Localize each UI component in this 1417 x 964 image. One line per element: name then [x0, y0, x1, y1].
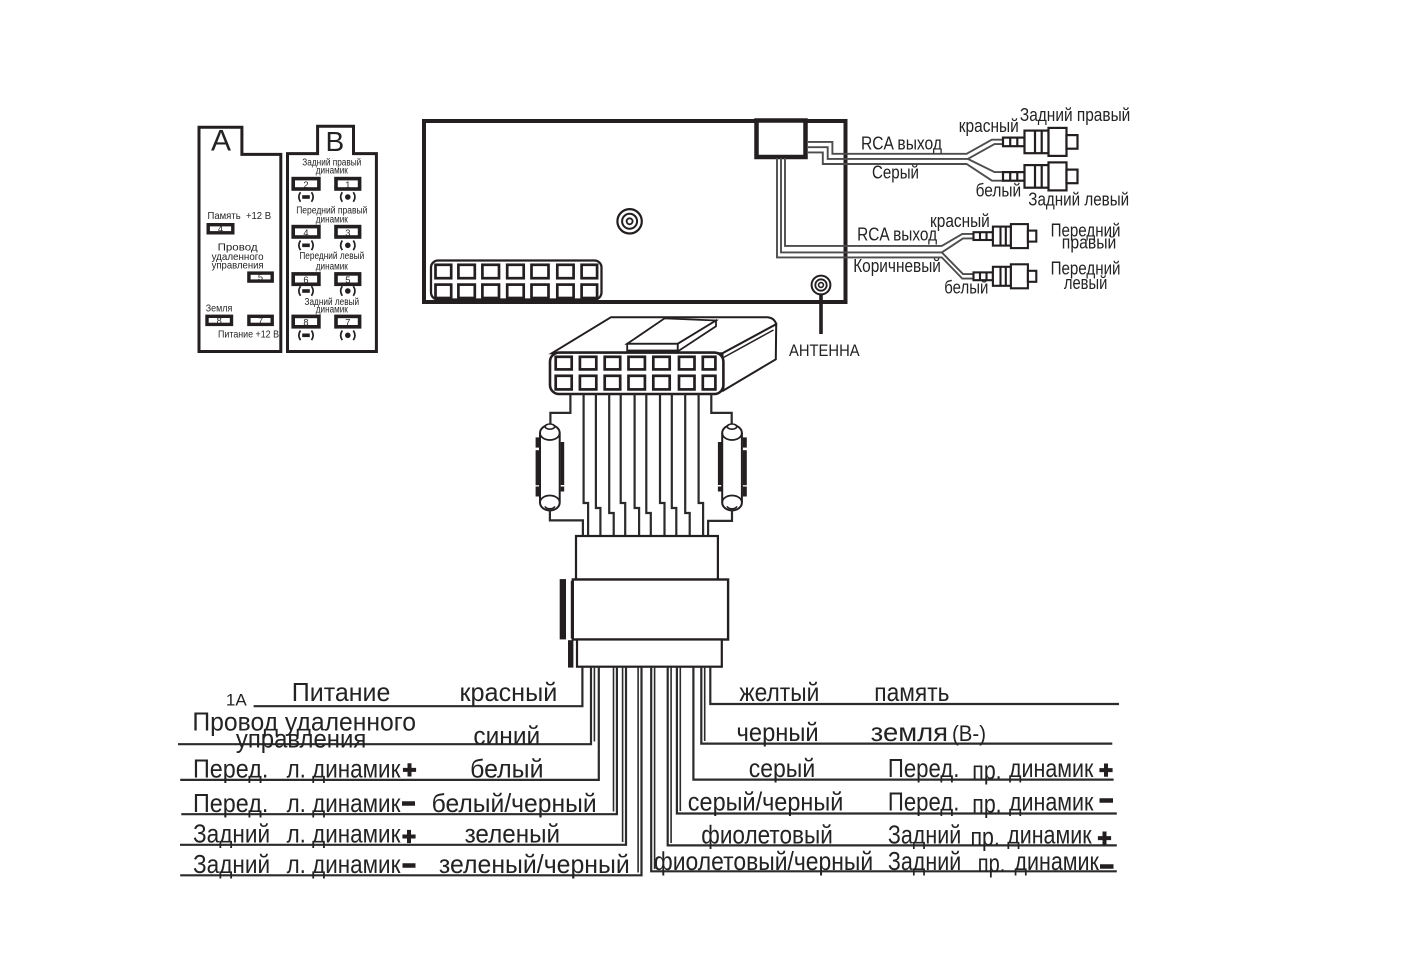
svg-text:красный: красный — [930, 211, 990, 231]
wire RCA front top line — [785, 158, 974, 246]
svg-text:красный: красный — [460, 677, 558, 707]
harness block clip bar upper — [560, 579, 566, 639]
svg-text:управления: управления — [236, 723, 366, 753]
svg-text:Задний: Задний — [193, 849, 270, 879]
svg-text:5: 5 — [345, 275, 350, 285]
svg-text:динамик: динамик — [316, 165, 349, 176]
svg-text:Передний левый: Передний левый — [299, 251, 364, 262]
fuse right bottom nipple — [727, 506, 736, 509]
pin box B8 — [293, 316, 319, 326]
svg-text:земля: земля — [871, 717, 948, 747]
svg-text:Питание: Питание — [292, 677, 391, 707]
fuse left clip right — [561, 442, 565, 492]
svg-text:красный: красный — [959, 116, 1019, 136]
svg-text:АНТЕННА: АНТЕННА — [789, 342, 860, 360]
pin box B1 — [336, 179, 360, 189]
symbol plus B3 — [341, 241, 355, 251]
wire RCA rear top line — [808, 140, 1003, 154]
svg-text:серый: серый — [749, 753, 816, 783]
pin box B2 — [293, 179, 319, 189]
wire gray row 3 right — [693, 667, 1113, 780]
svg-text:белый: белый — [944, 277, 988, 297]
wire plug to left fuse — [550, 394, 570, 424]
wire plug pin 7 — [646, 394, 651, 536]
svg-text:8: 8 — [303, 318, 308, 328]
svg-text:Перед.: Перед. — [193, 753, 268, 783]
svg-text:управления: управления — [212, 260, 264, 272]
svg-text:Перед.: Перед. — [888, 786, 960, 816]
svg-text:Задний левый: Задний левый — [1028, 190, 1129, 210]
svg-text:RCA выход: RCA выход — [857, 225, 937, 245]
ISO plug right face rim line — [724, 330, 774, 358]
svg-text:динамик: динамик — [1015, 846, 1100, 876]
fuse right top nipple — [727, 424, 736, 429]
wire plug pin 8 — [660, 394, 665, 536]
ISO plug top face — [552, 317, 776, 353]
wire violet row 5 right — [668, 667, 1117, 846]
svg-text:белый/черный: белый/черный — [432, 788, 597, 818]
svg-text:5: 5 — [258, 273, 263, 283]
svg-text:3: 3 — [345, 228, 350, 238]
svg-text:Задний: Задний — [193, 819, 270, 849]
svg-text:7: 7 — [258, 316, 263, 326]
harness block clip bar lower — [568, 640, 573, 667]
svg-text:белый: белый — [976, 181, 1022, 201]
wire plug pin 10 — [685, 394, 690, 536]
wire black (земля) row 2 right — [701, 667, 1112, 744]
svg-text:л. динамик: л. динамик — [287, 788, 401, 818]
fuse left top nipple — [545, 424, 554, 429]
wire plug pin 2 — [584, 394, 589, 536]
pin box A5 — [249, 273, 272, 281]
svg-text:л. динамик: л. динамик — [287, 753, 401, 783]
symbol minus B2 — [299, 192, 313, 202]
wire blue (Провод удаленного управления) row 2 left — [178, 667, 591, 745]
svg-text:левый: левый — [1064, 273, 1107, 293]
ISO plug key tab top face — [627, 318, 716, 343]
symbol plus B1 — [341, 192, 355, 202]
RCA plug front right (red) — [974, 224, 1037, 248]
fuse left clip left — [536, 437, 540, 496]
antenna jack — [812, 276, 831, 295]
antenna lead wire — [819, 295, 823, 334]
ISO plug right side face — [723, 324, 777, 390]
symbol minus B6 — [299, 286, 313, 296]
svg-text:динамик: динамик — [1009, 753, 1094, 783]
wire green row 5 left — [180, 667, 626, 845]
svg-text:Перед.: Перед. — [193, 788, 268, 818]
wire plug pin 6 — [635, 394, 640, 536]
RCA plug front left (white) — [974, 264, 1037, 288]
wire row 2 left companion line — [593, 667, 595, 742]
wire row 5 right companion line — [670, 667, 672, 843]
wire right fuse to harness block — [708, 509, 732, 536]
fuse right clip right — [743, 437, 747, 496]
wire plug to right fuse — [711, 394, 731, 424]
svg-text:Коричневый: Коричневый — [853, 256, 941, 276]
harness block middle shell — [573, 580, 728, 640]
connector A outline — [199, 127, 281, 351]
svg-text:B: B — [326, 126, 345, 157]
RCA output module box — [757, 121, 806, 158]
wire RCA rear middle line — [808, 144, 1003, 172]
svg-text:фиолетовый/черный: фиолетовый/черный — [654, 846, 873, 876]
wire row 2 right companion line — [704, 667, 706, 741]
svg-text:2: 2 — [303, 180, 308, 190]
svg-text:правый: правый — [1062, 233, 1117, 253]
fuse left bottom nipple — [545, 506, 554, 509]
wire row 5 left companion line — [622, 667, 624, 842]
pin box A8 — [207, 316, 232, 324]
svg-text:черный: черный — [737, 717, 819, 747]
symbol minus B4 — [299, 241, 313, 251]
pin box A7 — [249, 316, 272, 324]
symbol plus B7 — [341, 331, 355, 341]
harness block upper shell — [576, 536, 718, 580]
svg-text:Питание +12 В: Питание +12 В — [218, 328, 279, 340]
svg-text:память: память — [874, 677, 949, 707]
svg-text:6: 6 — [303, 275, 308, 285]
symbol minus B8 — [299, 331, 313, 341]
pin box B7 — [336, 316, 360, 326]
wire RCA front bottom line — [777, 158, 974, 279]
svg-text:зеленый/черный: зеленый/черный — [439, 849, 630, 879]
wire yellow (память) row 1 right — [710, 667, 1119, 704]
harness block lower shell — [577, 640, 722, 667]
wire white row 3 left — [180, 667, 599, 780]
wire RCA rear bottom line — [808, 152, 1003, 180]
RCA plug rear right (red) — [1003, 128, 1078, 156]
fuse left bottom seam — [540, 496, 560, 503]
svg-text:пр.: пр. — [972, 789, 1001, 819]
svg-text:синий: синий — [473, 720, 540, 750]
svg-text:динамик: динамик — [316, 262, 349, 273]
svg-text:зеленый: зеленый — [465, 819, 560, 849]
fuse left body — [540, 425, 560, 511]
wire RCA front middle line — [781, 158, 974, 274]
ISO plug pin squares — [556, 357, 716, 390]
rear connector socket on unit — [431, 261, 602, 300]
screw boss center — [617, 209, 641, 233]
wire green/black row 6 left — [180, 667, 641, 876]
svg-text:8: 8 — [217, 316, 222, 326]
svg-text:Перед.: Перед. — [888, 753, 960, 783]
wire left fuse to harness block — [550, 509, 583, 536]
wire white/black row 4 left — [181, 667, 617, 815]
wire red (Питание) row 1 left — [254, 667, 583, 707]
wire plug pin 11 — [699, 394, 704, 536]
svg-text:серый/черный: серый/черный — [688, 786, 844, 816]
svg-text:RCA выход: RCA выход — [861, 134, 942, 154]
pin box B6 — [293, 274, 319, 284]
symbol plus B5 — [341, 286, 355, 296]
wire violet/black row 6 right — [651, 667, 1117, 872]
wire plug pin 4 — [609, 394, 614, 536]
svg-text:л. динамик: л. динамик — [287, 819, 401, 849]
svg-text:л. динамик: л. динамик — [287, 849, 401, 879]
svg-text:динамик: динамик — [316, 305, 349, 316]
wire plug pin 5 — [621, 394, 626, 536]
wire row 4 left companion line — [613, 667, 615, 812]
wire plug pin 3 — [596, 394, 601, 536]
svg-text:4: 4 — [303, 228, 308, 238]
harness block clip line — [571, 581, 573, 639]
svg-text:желтый: желтый — [739, 677, 819, 707]
svg-text:(В-): (В-) — [952, 721, 986, 746]
svg-text:Серый: Серый — [872, 163, 919, 183]
wire gray/black row 4 right — [677, 667, 1117, 814]
fuse right top seam — [722, 433, 742, 440]
fuse right clip left — [718, 442, 722, 492]
svg-text:Задний правый: Задний правый — [1020, 105, 1130, 125]
svg-text:белый: белый — [470, 753, 543, 783]
svg-text:пр.: пр. — [978, 848, 1006, 878]
svg-text:1: 1 — [345, 180, 350, 190]
connector B outline — [288, 126, 377, 351]
head unit rear panel — [424, 121, 846, 302]
svg-text:Земля: Земля — [206, 303, 233, 315]
fuse right body — [722, 425, 742, 511]
svg-text:Память +12 В: Память +12 В — [208, 210, 272, 222]
fuse left top seam — [540, 433, 560, 440]
svg-text:4: 4 — [218, 224, 223, 234]
pin box B5 — [336, 274, 360, 284]
RCA plug rear left (white) — [1003, 162, 1078, 190]
svg-text:A: A — [211, 125, 231, 158]
pin box B3 — [336, 227, 360, 237]
svg-text:динамик: динамик — [316, 215, 349, 226]
wire row 4 right companion line — [679, 667, 681, 811]
ISO plug key tab side face — [678, 321, 716, 352]
ISO plug front face — [550, 353, 723, 394]
wire row 6 left companion line — [637, 667, 639, 873]
svg-text:Задний: Задний — [888, 846, 961, 876]
wire row 6 right companion line — [654, 667, 656, 869]
svg-text:7: 7 — [345, 318, 350, 328]
svg-text:динамик: динамик — [1009, 786, 1094, 816]
fuse right bottom seam — [722, 496, 742, 503]
ISO plug key tab base shadow — [627, 350, 678, 353]
pin box B4 — [293, 227, 319, 237]
pin box A4 — [208, 225, 233, 233]
svg-text:пр.: пр. — [972, 755, 1001, 785]
wire plug pin 9 — [672, 394, 677, 536]
socket pin grid — [436, 265, 598, 298]
ISO plug key tab front face — [627, 344, 678, 352]
